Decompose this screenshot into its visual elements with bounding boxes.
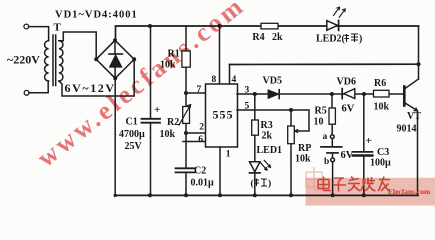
svg-text:b: b	[324, 157, 329, 167]
node bridge left vertex	[94, 57, 98, 61]
resistor R6	[374, 90, 390, 97]
resistor R5 battery branch	[331, 94, 334, 195]
svg-text:LED1: LED1	[257, 145, 283, 156]
potentiometer RP branch	[290, 110, 292, 195]
svg-text:0.01µ: 0.01µ	[191, 178, 215, 189]
wire pin2	[186, 132, 205, 134]
svg-text:6V: 6V	[341, 150, 354, 161]
junction pin3 R3	[253, 92, 257, 96]
svg-text:~220V: ~220V	[7, 53, 40, 67]
faint pink char	[306, 167, 325, 190]
watermark www.elecfans.com diagonal	[32, 0, 251, 173]
svg-text:100µ: 100µ	[370, 158, 391, 169]
svg-text:R3: R3	[261, 120, 273, 131]
junction R5 net	[330, 92, 334, 96]
svg-text:10k: 10k	[160, 129, 176, 140]
svg-text:R1: R1	[168, 49, 180, 60]
node bridge top vertex	[113, 38, 117, 42]
terminal a	[330, 135, 334, 139]
svg-text:6V~12V: 6V~12V	[65, 81, 116, 95]
transformer T primary lead top	[29, 27, 49, 41]
watermark pink band bottom right	[306, 178, 435, 206]
op-amp timer 555 U1 box	[206, 84, 238, 147]
svg-text:R2: R2	[167, 117, 179, 128]
svg-text:555: 555	[213, 108, 234, 122]
svg-text:2k: 2k	[262, 131, 273, 142]
bridge inner diode	[114, 40, 116, 78]
svg-text:2k: 2k	[272, 32, 283, 43]
svg-text:C1: C1	[126, 117, 138, 128]
transistor VT 9014	[403, 87, 406, 106]
junction ground C2	[184, 193, 188, 197]
svg-text:): )	[359, 34, 362, 45]
svg-text:VT: VT	[407, 111, 421, 122]
junction collector rail2	[416, 62, 420, 66]
svg-text:LED2(: LED2(	[316, 34, 346, 45]
wire pin4 lead	[229, 65, 231, 85]
svg-text:R4: R4	[252, 32, 264, 43]
wire bottom ground rail	[115, 194, 418, 196]
svg-text:T: T	[54, 22, 62, 34]
wire pin6	[183, 141, 205, 143]
junction ground C3	[362, 193, 366, 197]
svg-text:5: 5	[245, 102, 250, 112]
wire R1 R2 C2 vertical x185	[185, 26, 187, 195]
junction ground RP	[289, 193, 293, 197]
svg-text:+: +	[366, 135, 372, 147]
capacitor C3 plates	[353, 151, 373, 153]
svg-text:10k: 10k	[160, 60, 176, 71]
svg-text:a: a	[323, 132, 328, 142]
battery 6V plates	[321, 146, 342, 148]
svg-text:VD5: VD5	[263, 76, 282, 87]
capacitor C1 plates	[142, 119, 161, 123]
resistor R4 on top rail	[261, 23, 278, 29]
diode VD6 zener	[341, 89, 343, 99]
terminal b	[331, 158, 335, 162]
transformer T primary winding	[45, 41, 49, 81]
svg-text:3: 3	[245, 86, 250, 96]
svg-text:25V: 25V	[125, 141, 143, 152]
resistor R1	[182, 51, 190, 67]
junction ground battery	[331, 193, 335, 197]
wire VD5 to base net	[279, 93, 404, 95]
wire pin7	[186, 92, 205, 94]
svg-text:(: (	[251, 178, 254, 189]
junction ground LED1	[253, 193, 257, 197]
wire right vertical from rail to collector node	[418, 26, 420, 79]
potentiometer RP	[288, 126, 295, 144]
svg-text:RP: RP	[298, 143, 311, 154]
svg-text:9014: 9014	[397, 124, 417, 135]
svg-text:R5: R5	[315, 106, 327, 117]
svg-text:6V: 6V	[342, 104, 355, 115]
transformer T secondary winding	[59, 41, 63, 81]
watermark chinese chars elecfans	[318, 177, 390, 192]
resistor R3	[252, 120, 259, 135]
junction ground pin1	[218, 193, 222, 197]
resistor R5	[329, 108, 335, 124]
LED1	[250, 162, 261, 172]
junction pin5 RP	[289, 108, 293, 112]
svg-text:6: 6	[198, 135, 203, 145]
junction pin7 R1 R2	[184, 91, 188, 95]
svg-text:4: 4	[232, 75, 237, 85]
svg-text:10k: 10k	[374, 102, 390, 113]
svg-text:10: 10	[314, 117, 324, 128]
bridge rectifier VD1-VD4 diamond	[96, 40, 134, 78]
wire pin1 lead	[219, 147, 221, 195]
glyph green char for LED2	[345, 34, 359, 42]
diode VD5	[268, 90, 278, 98]
svg-text:VD1~VD4:4001: VD1~VD4:4001	[55, 10, 138, 21]
svg-text:Elecfans.com: Elecfans.com	[388, 187, 431, 196]
wire secondary top to bridge left vertex	[59, 32, 96, 59]
wire pin3	[237, 93, 267, 95]
wire rail2 pin4 to collector node	[230, 63, 419, 65]
svg-text:7: 7	[197, 85, 202, 95]
transformer T core	[53, 35, 56, 86]
junction ground bridge	[114, 194, 117, 197]
LED2	[327, 21, 338, 31]
svg-text:VD6: VD6	[337, 77, 356, 88]
wire top +V rail	[116, 26, 419, 40]
wire main +V vertical x150	[150, 26, 152, 195]
node bridge bottom vertex	[113, 76, 117, 80]
wire pin8 lead	[219, 26, 221, 84]
junction pin2 R2 C2	[184, 131, 188, 135]
potentiometer R2	[183, 107, 190, 124]
transformer T primary lead bottom	[29, 81, 48, 93]
svg-text:10k: 10k	[295, 154, 311, 165]
svg-text:4700µ: 4700µ	[119, 129, 145, 140]
pin numbers	[197, 75, 250, 160]
capacitor C2 plates	[176, 168, 195, 172]
capacitor C3 branch	[363, 94, 365, 195]
node bridge right vertex	[132, 57, 136, 61]
svg-text:C2: C2	[194, 166, 206, 177]
junction ground C1	[148, 193, 152, 197]
svg-text:2: 2	[199, 123, 204, 133]
svg-text:R6: R6	[374, 78, 386, 89]
svg-text:8: 8	[212, 75, 217, 85]
junction C1 top rail	[148, 24, 152, 28]
wire bridge bottom to ground rail	[114, 78, 116, 195]
junction C3 net	[362, 92, 366, 96]
wire secondary bottom to bridge right vertex	[59, 59, 134, 96]
junction pin8 top rail	[218, 24, 222, 28]
terminal circles 220V input	[24, 24, 29, 95]
svg-text:1: 1	[226, 150, 231, 160]
svg-text:C3: C3	[377, 147, 389, 158]
resistor R3 and LED1 branch	[254, 94, 256, 195]
svg-text:): )	[268, 178, 271, 189]
svg-text:+: +	[154, 104, 160, 116]
wire pin5 to RP	[237, 110, 309, 131]
